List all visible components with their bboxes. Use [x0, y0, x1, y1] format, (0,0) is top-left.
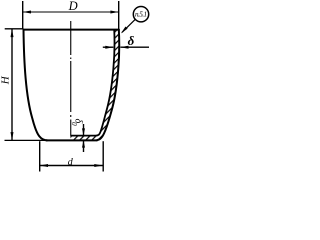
hatch section (wall + bottom cut) [70, 29, 119, 140]
callout balloon circle p.5.1 [133, 7, 148, 22]
left outer wall [24, 29, 48, 140]
D arrow left [23, 11, 31, 14]
centerline (axis, dash-dot) [70, 21, 72, 136]
svg-text:H: H [0, 75, 12, 85]
inner wall + inner bottom [70, 29, 114, 136]
label delta0 (rotated) [70, 119, 83, 127]
dimension H line [11, 29, 13, 141]
delta arrow right (points left at outer wall) [120, 46, 128, 49]
dimension delta (wall thickness) [103, 46, 114, 48]
dimension d line [40, 165, 103, 167]
H extension bottom [5, 139, 47, 141]
delta0 arrow down (tip at inner bottom) [82, 128, 85, 135]
D extension right [118, 1, 120, 29]
outer bottom [46, 139, 98, 141]
right outer wall [97, 29, 120, 140]
D extension left [22, 1, 24, 29]
delta0 arrow up (tip at outer bottom) [82, 140, 85, 147]
d arrow right [94, 164, 102, 167]
dimension delta0 (bottom thickness) [83, 124, 85, 135]
H arrow down [11, 132, 14, 140]
d extension left [39, 141, 41, 171]
dimension D line [23, 11, 119, 13]
callout arrowhead [121, 27, 128, 34]
callout leader [122, 19, 135, 32]
svg-text:D: D [68, 0, 78, 13]
svg-text:п.5.1: п.5.1 [135, 11, 147, 19]
svg-text:δ: δ [128, 33, 135, 48]
delta arrow left (points right at inner wall) [105, 46, 113, 49]
D arrow right [110, 11, 118, 14]
crucible rim (top line) [23, 29, 120, 31]
d extension right [102, 141, 104, 171]
d arrow left [40, 164, 48, 167]
H arrow up [11, 29, 14, 37]
H extension top [5, 28, 24, 30]
svg-text:0: 0 [70, 122, 78, 126]
